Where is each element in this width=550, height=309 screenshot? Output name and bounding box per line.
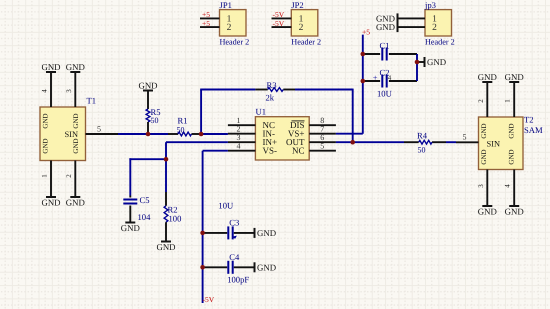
svg-text:GND: GND (66, 198, 85, 208)
U1 pin name DIS (pin8) with overline (290, 120, 305, 130)
svg-text:GND: GND (72, 138, 80, 153)
svg-text:T2: T2 (524, 115, 534, 125)
capacitor C5 (123, 195, 149, 223)
transformer T1 box (40, 107, 86, 161)
ground right of C3 (255, 228, 277, 238)
U1 pin name VS- (pin4) (263, 146, 278, 156)
svg-text:GND: GND (66, 62, 85, 72)
ground below C5 (121, 223, 140, 234)
T2 pin 3 wire (477, 170, 488, 207)
designator T2 (524, 115, 534, 125)
svg-text:GND: GND (478, 207, 497, 217)
resistor R3 (255, 80, 295, 102)
wire to GND tap (417, 61, 425, 63)
T2 inside pin name GND (right top) (508, 123, 516, 138)
ground T1 pin1 (41, 197, 60, 208)
svg-text:5: 5 (320, 142, 324, 151)
T2 inside pin name SIN (487, 139, 501, 148)
op-amp U1 box (255, 117, 309, 160)
svg-text:3: 3 (477, 184, 485, 188)
power +5 label on JP1 pin2 (202, 19, 210, 28)
svg-text:GND: GND (41, 198, 60, 208)
svg-text:2: 2 (65, 174, 73, 178)
T1 pin 3 wire (65, 72, 76, 107)
U1 pin 3 stub (228, 133, 256, 142)
resistor R1 (168, 116, 201, 136)
U1 pin 5 stub (309, 142, 336, 151)
svg-text:-5V: -5V (203, 295, 215, 304)
U1 pin name OUT (pin6) (286, 137, 305, 147)
wire C5 branch down (129, 158, 131, 195)
U1 pin 6 stub (309, 133, 336, 142)
junction R3/OUT (350, 140, 355, 145)
U1 pin name IN+ (pin3) (263, 137, 278, 147)
svg-text:C4: C4 (229, 252, 240, 262)
ground T1 pin2 (66, 197, 85, 208)
value 100pF of C4 (227, 274, 249, 284)
svg-text:50: 50 (177, 126, 185, 135)
svg-text:GND: GND (478, 72, 497, 82)
label SAM (524, 125, 543, 135)
svg-text:4: 4 (388, 74, 392, 82)
svg-text:5: 5 (97, 124, 101, 133)
junction R1/R3 (199, 132, 204, 137)
junction C3/-5V (200, 231, 205, 236)
wire junction up to R3 row (200, 90, 202, 135)
svg-text:SIN: SIN (65, 130, 79, 139)
svg-text:T1: T1 (87, 96, 97, 106)
connector JP1 pin 1 (200, 14, 232, 24)
wire R3 down to OUT net (352, 89, 354, 143)
svg-text:R1: R1 (178, 116, 188, 126)
capacitor C4 (203, 252, 255, 274)
wire junction to R2 (165, 159, 167, 206)
svg-text:GND: GND (72, 113, 80, 128)
U1 pin 4 stub (228, 142, 256, 151)
svg-text:100pF: 100pF (227, 274, 249, 284)
svg-text:10U: 10U (218, 201, 234, 211)
ground right of C4 (255, 262, 277, 272)
T1 pin 2 wire (65, 161, 76, 198)
svg-text:5: 5 (463, 133, 467, 142)
T1 inside pin name GND (left top) (42, 113, 50, 128)
T2 inside pin name GND (right bottom) (508, 149, 516, 164)
junction GND tap (415, 60, 420, 65)
connector jp3 pin 1 (398, 14, 438, 24)
U1 pin 2 stub (228, 125, 256, 134)
svg-text:GND: GND (257, 228, 276, 238)
svg-text:2: 2 (477, 99, 485, 103)
svg-text:SIN: SIN (487, 139, 501, 148)
svg-text:GND: GND (508, 123, 516, 138)
wire T1 pin5 to R1 (118, 133, 168, 135)
U1 pin 1 stub (228, 116, 256, 125)
svg-text:U1: U1 (256, 107, 267, 117)
svg-text:GND: GND (480, 123, 488, 138)
svg-text:+: + (373, 72, 378, 82)
svg-text:50: 50 (151, 116, 159, 125)
U1 pin 7 stub (309, 125, 336, 134)
connector JP1 pin 2 (200, 23, 232, 33)
power -5V label on JP2 pin2 (273, 19, 285, 28)
svg-text:4: 4 (504, 184, 512, 188)
T2 inside pin name GND (left top) (480, 123, 488, 138)
wire U1 pin3 left (166, 141, 228, 143)
connector JP2 pin 1 (272, 14, 304, 24)
T1 inside pin name GND (left bottom) (42, 138, 50, 153)
wire +5 to U1 pin7 (336, 133, 363, 135)
T2 pin 5 wire (456, 133, 479, 143)
svg-text:NC: NC (292, 146, 305, 156)
svg-text:GND: GND (42, 113, 50, 128)
wire IN+ down (165, 142, 167, 159)
transformer T2 box (479, 117, 524, 170)
T2 pin 1 wire (504, 82, 515, 117)
T1 inside pin name SIN (65, 130, 79, 139)
junction R5/main (146, 132, 151, 137)
svg-text:GND: GND (156, 242, 175, 252)
value 10U of C2 (377, 89, 393, 99)
svg-text:GND: GND (138, 80, 157, 90)
resistor R2 (164, 204, 181, 223)
power +5 label (362, 27, 370, 36)
connector jp3 box (424, 0, 455, 46)
junction C1/+5 (361, 52, 366, 57)
svg-text:SAM: SAM (524, 125, 543, 135)
T1 pin 4 wire (41, 72, 52, 107)
U1 pin name IN- (pin2) (263, 129, 276, 139)
wire R2 to GND (165, 222, 167, 241)
svg-text:2: 2 (432, 23, 437, 33)
svg-text:GND: GND (42, 138, 50, 153)
connector jp3 pin 2 (398, 23, 438, 33)
value 104 of C5 (138, 212, 152, 222)
svg-text:GND: GND (376, 22, 395, 32)
T1 pin 1 wire (41, 161, 52, 198)
svg-text:VS-: VS- (263, 146, 278, 156)
svg-text:2: 2 (299, 23, 304, 33)
capacitor C3 (polarized) (203, 217, 255, 239)
wire -5V rail vertical (202, 151, 204, 303)
connector JP2 pin 2 (272, 23, 304, 33)
wire R1 to U1 pin2 (201, 133, 228, 135)
capacitor C2 (polarized) (363, 67, 417, 87)
ground above R5 (138, 80, 157, 90)
wire R3 right segment (295, 89, 353, 91)
T1 pin 5 wire (86, 124, 119, 134)
svg-text:GND: GND (121, 223, 140, 233)
svg-text:GND: GND (505, 207, 524, 217)
U1 pin 8 stub (309, 116, 336, 125)
svg-text:2k: 2k (266, 92, 275, 102)
wire GND to R5 (147, 91, 149, 110)
ground T2 pin2 (478, 72, 497, 82)
ground T2 pin4 (505, 206, 524, 217)
T2 pin 4 wire (504, 170, 515, 207)
svg-text:GND: GND (257, 262, 276, 272)
svg-text:3: 3 (65, 89, 73, 93)
power -5V label (203, 295, 215, 304)
svg-text:4: 4 (237, 142, 241, 151)
svg-text:R3: R3 (267, 80, 277, 90)
T2 pin 2 wire (477, 82, 488, 117)
svg-text:10U: 10U (377, 89, 393, 99)
U1 pin name NC (pin1) (263, 120, 276, 130)
wire C1-C2 right vertical (416, 54, 418, 81)
svg-text:C3: C3 (229, 217, 239, 227)
junction C2/+5 (361, 79, 366, 84)
wire R3 left segment (200, 89, 255, 91)
svg-text:GND: GND (505, 72, 524, 82)
svg-text:JP1: JP1 (220, 0, 232, 10)
wire R5 to main net (147, 122, 149, 134)
svg-text:104: 104 (138, 212, 152, 222)
svg-text:GND: GND (41, 62, 60, 72)
svg-text:JP2: JP2 (291, 0, 303, 10)
power +5 label on JP1 pin1 (202, 10, 210, 19)
power -5V label on JP2 pin1 (273, 10, 285, 19)
designator U1 (256, 107, 267, 117)
svg-text:-5V: -5V (273, 19, 285, 28)
T1 inside pin name GND (right bottom) (72, 138, 80, 153)
svg-text:1: 1 (41, 174, 49, 178)
ground right of C1C2 (425, 57, 447, 67)
connector JP1 box (220, 0, 250, 46)
svg-text:GND: GND (427, 57, 446, 67)
svg-text:C1: C1 (380, 40, 390, 50)
ground T2 pin3 (478, 206, 497, 217)
ground T2 pin1 (505, 72, 524, 82)
ground port on jp3 pin 2 (376, 22, 398, 32)
ground below R2 (156, 242, 175, 253)
svg-text:2: 2 (227, 23, 232, 33)
T1 inside pin name GND (right top) (72, 113, 80, 128)
svg-text:Header 2: Header 2 (425, 37, 455, 46)
T2 inside pin name GND (left bottom) (480, 149, 488, 164)
ground T1 pin4 (41, 62, 60, 72)
svg-text:R4: R4 (417, 131, 428, 141)
wire +5 rail vertical (362, 35, 364, 134)
designator T1 (87, 96, 97, 106)
svg-text:GND: GND (508, 149, 516, 164)
svg-text:Header 2: Header 2 (220, 37, 250, 46)
resistor R5 (146, 107, 160, 125)
svg-text:jp3: jp3 (424, 0, 436, 10)
svg-text:50: 50 (418, 145, 426, 154)
svg-text:GND: GND (480, 149, 488, 164)
connector JP2 box (291, 0, 321, 46)
value 10U of C3 (218, 201, 234, 211)
wire R4 to T2 (446, 141, 456, 143)
svg-text:Header 2: Header 2 (291, 37, 321, 46)
wire junction to C5 branch (129, 158, 167, 160)
junction C4/-5V (200, 265, 205, 270)
svg-text:C5: C5 (140, 195, 150, 205)
svg-text:1: 1 (504, 99, 512, 103)
ground T1 pin3 (66, 62, 85, 72)
junction C5/R2 (164, 157, 169, 162)
wire U1 pin4 left (203, 150, 228, 152)
wire U1 pin6 to R4 (336, 141, 404, 143)
U1 pin name NC (pin5) (292, 146, 305, 156)
U1 pin name VS+ (pin7) (288, 129, 305, 139)
svg-text:4: 4 (41, 89, 49, 93)
resistor R4 (404, 131, 446, 155)
ground port on jp3 pin 1 (376, 13, 398, 23)
capacitor C1 (363, 40, 417, 60)
svg-text:+5: +5 (202, 19, 210, 28)
svg-text:100: 100 (169, 213, 182, 223)
